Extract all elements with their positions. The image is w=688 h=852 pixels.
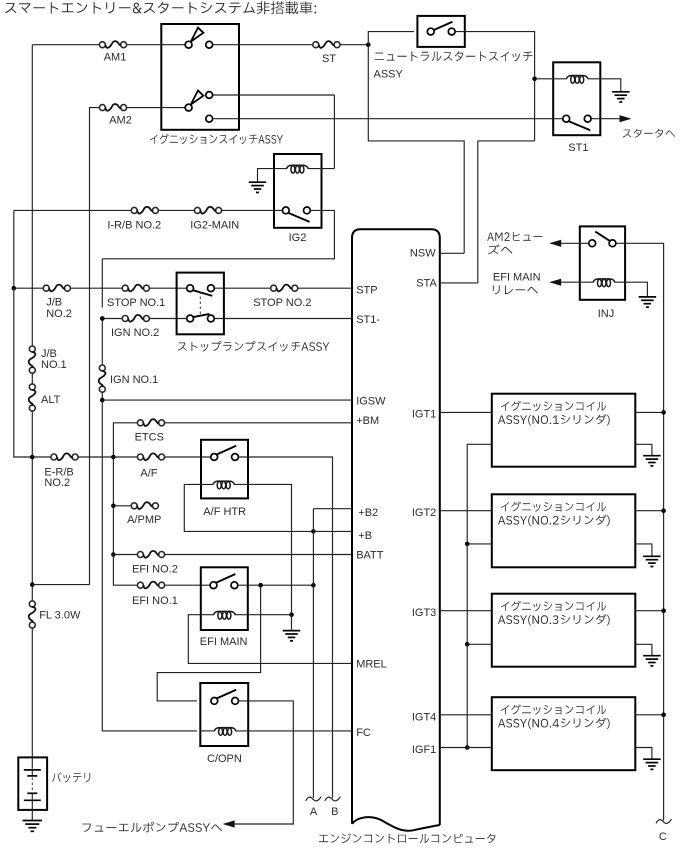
wire IG2 output to IGN riser: [102, 210, 334, 258]
svg-text:ST: ST: [322, 53, 336, 65]
stop lamp switch label: [178, 341, 329, 352]
label to AM2 fuse line1: [487, 232, 542, 241]
junction coil 1 output: [661, 410, 666, 415]
wire AM2 branch horizontal: [32, 584, 89, 586]
ignition switch assy box: [161, 24, 239, 130]
ignition coil assy no.2 label line1: [501, 502, 606, 512]
stop switch top left contact: [187, 285, 194, 292]
fuse IGN NO.1 (vertical): [99, 365, 105, 371]
stop switch top lever: [193, 290, 212, 296]
wire coil 1 ground: [635, 444, 652, 455]
label to starter: [623, 129, 675, 138]
wire bus to FL fuse: [31, 585, 33, 601]
wire C/OPN feed drop: [157, 585, 260, 701]
svg-text:ST1: ST1: [568, 142, 588, 154]
fuse ALT (vertical): [29, 384, 35, 390]
wire bus between J/B NO.1 and ALT: [31, 373, 33, 384]
ignition coil assy no.1 label line1: [501, 401, 606, 411]
arrow to starter: [620, 115, 632, 122]
ignition switch AM2 lever: [191, 91, 204, 105]
wire IG2 coil riser: [333, 95, 335, 169]
arrow to AM2 fuse: [549, 240, 561, 247]
svg-text:FC: FC: [356, 727, 371, 739]
wire +B line to ECU: [313, 530, 352, 532]
neutral switch right contact: [448, 28, 455, 35]
wire C/OPN output to fuel pump: [234, 701, 293, 824]
wire C/OPN coil right to ECU FC: [236, 730, 352, 732]
ignition switch AM1 pivot contact: [185, 41, 192, 48]
wire IGT4 from ECU: [440, 714, 492, 716]
stop lamp switch assy box: [177, 273, 224, 335]
svg-text:IGT4: IGT4: [412, 711, 436, 723]
wire ST fuse to node at x368: [340, 44, 368, 46]
wire EFI NO.1 fuse to EFI MAIN relay: [165, 584, 211, 586]
battery plate 1 stem: [31, 770, 33, 775]
title text: smart entry & start system not installed: [5, 1, 316, 14]
junction IGSW: [100, 398, 105, 403]
wire IGN riser to C/OPN coil: [102, 400, 197, 731]
svg-text:ETCS: ETCS: [135, 432, 164, 444]
wire IGF1 from ECU to coil 4: [440, 747, 492, 749]
svg-text:IGT2: IGT2: [412, 507, 436, 519]
svg-text:STOP NO.2: STOP NO.2: [253, 297, 311, 309]
junction ST line / neutral switch feed: [366, 42, 371, 47]
svg-text:AM2: AM2: [109, 115, 132, 127]
wire coil 3 ground: [635, 644, 652, 655]
relay A/F HTR box: [201, 440, 248, 499]
junction EFI MAIN output / A-line: [311, 583, 316, 588]
ignition switch IG2 output contact: [206, 92, 213, 99]
ground ST1 coil: [612, 91, 630, 93]
ignition switch AM2 pivot contact: [185, 104, 192, 111]
fuse ST: [313, 42, 319, 48]
wire ST1 coil feed: [535, 78, 567, 80]
relay INJ switch left contact: [589, 240, 596, 247]
battery plate 1 long: [24, 769, 41, 771]
fuse E-R/B NO.2: [51, 454, 57, 460]
svg-text:IG2-MAIN: IG2-MAIN: [190, 220, 239, 232]
junction EFI MAIN output / C-OPN feed: [258, 583, 263, 588]
relay ST1 switch right contact: [584, 115, 591, 122]
relay C/OPN switch right contact: [232, 698, 239, 705]
svg-text:INJ: INJ: [598, 308, 615, 320]
wire STOP NO.2 fuse to ECU STP: [298, 287, 352, 289]
ground INJ coil: [639, 296, 657, 298]
wire IGN riser top: [101, 259, 103, 308]
wire STOP NO.1 to stop switch: [149, 287, 186, 289]
ignition coil assy no.3 box: [492, 594, 636, 667]
svg-text:NSW: NSW: [410, 247, 436, 259]
relay IG2 switch lever: [288, 213, 309, 222]
ignition switch ST2 output contact: [206, 115, 213, 122]
wire bus to AM2 branch: [31, 457, 33, 585]
battery plate 2 stem: [31, 793, 33, 799]
wire AM1 feed from battery bus: [32, 44, 99, 46]
wire fuse bus A/PMP to EFI NO.2: [112, 506, 114, 555]
svg-text:+BM: +BM: [356, 415, 379, 427]
wire EFI NO.2 fuse to ECU BATT: [165, 554, 352, 556]
wire IG2 coil to ground: [258, 169, 288, 182]
ignition coil assy no.4 label line2: [498, 718, 610, 729]
svg-text:STP: STP: [356, 285, 377, 297]
wire ST2 line: contact to ST1 relay: [213, 118, 563, 120]
ignition coil assy no.2 box: [492, 494, 636, 567]
battery dashes: [31, 778, 33, 792]
stop switch bottom lever: [193, 314, 209, 317]
wire INJ switch output to right bus: [616, 243, 664, 820]
neutral start switch label line1: [375, 51, 533, 61]
wire INJ coil right to ground: [615, 282, 648, 296]
wire AM2 branch riser: [90, 108, 100, 585]
wire IGF chain coil2 link: [467, 543, 492, 545]
wire fuse bus A/F to A/PMP: [112, 457, 114, 506]
ignition coil assy no.4 label line1: [501, 704, 606, 714]
wire IGN riser to fuse: [101, 319, 103, 365]
svg-text:IG2: IG2: [289, 232, 307, 244]
fuse A/PMP: [131, 503, 137, 509]
battery plate 2 short: [27, 792, 37, 794]
svg-text:A/F: A/F: [140, 467, 157, 479]
wire IG2-MAIN fuse to relay: [222, 209, 283, 211]
wire ST1 coil to ground: [588, 79, 621, 92]
relay A/F HTR switch left contact: [211, 454, 218, 461]
neutral start switch assy box: [417, 16, 464, 47]
ignition switch assy label: [150, 134, 283, 144]
fuse STOP NO.2: [271, 285, 277, 291]
wire fuse bus EFI NO.2 to EFI NO.1: [113, 555, 137, 586]
svg-text:ALT: ALT: [41, 394, 61, 406]
svg-text:IGN NO.2: IGN NO.2: [111, 327, 159, 339]
wire IGN fuse to IGSW junction: [101, 392, 103, 400]
battery plate 2 long: [24, 799, 41, 801]
relay EFI MAIN box: [201, 567, 248, 630]
junction coil 3 output: [661, 608, 666, 613]
relay EFI MAIN lever: [216, 574, 235, 583]
svg-text:NO.2: NO.2: [44, 477, 70, 489]
svg-text:C/OPN: C/OPN: [207, 753, 242, 765]
wire to EFI NO.2 fuse: [113, 554, 137, 556]
relay C/OPN box: [200, 683, 248, 746]
wire AM2 fuse to switch pivot: [126, 107, 185, 109]
svg-text:ASSY: ASSY: [374, 69, 404, 81]
svg-text:EFI NO.1: EFI NO.1: [132, 595, 178, 607]
junction A/PMP feed: [111, 504, 116, 509]
wire left riser from IG2-MAIN line: [13, 210, 15, 288]
wire J/B NO.2 line: [14, 287, 44, 289]
svg-text:IGSW: IGSW: [356, 396, 386, 408]
wire STA pin: [440, 282, 478, 284]
coil A/F HTR: [213, 481, 235, 485]
ECU body outline: [352, 229, 440, 831]
wire NSW pin: [440, 252, 464, 254]
svg-text:C: C: [659, 831, 667, 843]
wire battery bus top (AM1 riser): [31, 45, 33, 346]
relay INJ box: [580, 226, 625, 299]
stop switch bottom left contact: [187, 315, 194, 322]
ignition switch AM1 output contact: [206, 41, 213, 48]
junction IGF chain coil 3: [465, 642, 470, 647]
battery cell top wire: [31, 757, 33, 768]
wire to A/F fuse: [113, 456, 137, 458]
wire EFI MAIN output: [238, 584, 314, 586]
ignition coil assy no.2 label line2: [498, 515, 610, 526]
junction EFI MAIN coil ground: [289, 612, 294, 617]
wire STP: stop switch to STOP NO.2 fuse: [214, 287, 270, 289]
ground ignition coil 1: [643, 455, 661, 457]
ignition coil assy no.1 label line2: [498, 414, 610, 425]
wire neutral switch right pin to ST1 coil riser: [455, 32, 534, 141]
wire FL fuse to battery: [31, 628, 33, 757]
svg-text:J/B: J/B: [46, 297, 62, 309]
junction E-R/B feed: [30, 455, 35, 460]
wire A/F HTR coil right to ground: [234, 484, 291, 614]
wire NSW branch down: [368, 45, 464, 254]
wire EFI MAIN coil left to MREL: [188, 615, 352, 664]
svg-text:AM1: AM1: [104, 52, 127, 64]
relay IG2 box: [274, 154, 322, 228]
junction ST1 coil feed: [532, 77, 537, 82]
svg-text:+B2: +B2: [358, 507, 378, 519]
relay C/OPN switch left contact: [211, 698, 218, 705]
junction IGN NO.2 feed: [100, 316, 105, 321]
arrow to fuel pump: [223, 820, 235, 827]
relay INJ lever: [595, 232, 609, 241]
wire IGF chain top hook (coil 1): [467, 444, 492, 544]
junction EFI NO.2 feed: [111, 552, 116, 557]
svg-text:+B: +B: [358, 530, 372, 542]
wire IGF chain coil3 link: [467, 643, 492, 645]
svg-text:NO.2: NO.2: [46, 308, 72, 320]
junction IGF chain / IGF1: [465, 745, 470, 750]
fuse STOP NO.1: [122, 285, 128, 291]
ignition coil assy no.1 box: [492, 394, 636, 467]
wire C/OPN coil left stub: [200, 730, 214, 732]
svg-text:STA: STA: [416, 278, 437, 290]
svg-text:NO.1: NO.1: [41, 359, 67, 371]
wire ground stem: [291, 615, 293, 630]
wire coil 3 output to right bus: [635, 610, 663, 612]
wire ETCS fuse to ECU +BM: [165, 422, 352, 424]
fuse J/B NO.1 (vertical): [29, 346, 35, 352]
svg-text:MREL: MREL: [356, 659, 387, 671]
fuse I-R/B NO.2: [131, 207, 137, 213]
junction A/F feed: [111, 455, 116, 460]
relay A/F HTR switch right contact: [232, 454, 239, 461]
battery box: [18, 757, 47, 810]
svg-text:A/F HTR: A/F HTR: [203, 506, 246, 518]
fuse A/F: [137, 454, 143, 460]
break B squiggle: [325, 797, 341, 801]
wire IGSW line to ECU: [102, 399, 352, 401]
relay C/OPN lever: [217, 690, 236, 699]
svg-text:EFI MAIN: EFI MAIN: [493, 272, 541, 284]
wire A-line riser: [312, 509, 314, 798]
coil ST1: [566, 76, 588, 80]
wire bus ALT to E-R/B junction: [31, 411, 33, 457]
wire between fuses: [158, 209, 194, 211]
relay INJ switch right contact: [609, 240, 616, 247]
arrow to EFI MAIN relay: [549, 279, 561, 286]
svg-text:BATT: BATT: [356, 550, 384, 562]
wire IGF chain 3-4: [466, 644, 468, 747]
neutral switch lever: [434, 22, 453, 30]
wire to E-R/B fuse: [32, 456, 51, 458]
relay ST1 switch left contact: [563, 115, 570, 122]
wire coil 2 output to right bus: [635, 510, 663, 512]
wire IG2 coil from riser: [308, 168, 335, 170]
label fuel pump assy: [82, 822, 222, 833]
relay EFI MAIN switch right contact: [231, 582, 238, 589]
wire coil 1 output to right bus: [635, 411, 663, 413]
wire node to neutral switch left pin: [368, 32, 414, 45]
battery label: [52, 772, 90, 782]
wire to A/PMP fuse: [113, 505, 131, 507]
svg-text:I-R/B NO.2: I-R/B NO.2: [107, 220, 161, 232]
wire ST line: AM1 contact to ST fuse: [213, 44, 313, 46]
neutral switch left contact: [427, 28, 434, 35]
coil C/OPN: [214, 728, 236, 732]
relay IG2 switch left contact: [282, 207, 289, 214]
stop switch bottom right contact: [208, 315, 215, 322]
svg-text:IGF1: IGF1: [412, 744, 436, 756]
svg-text:ST1-: ST1-: [356, 314, 380, 326]
wire ETCS branch: [113, 423, 137, 457]
wire INJ switch to arrow: [561, 242, 589, 244]
relay EFI MAIN switch left contact: [210, 582, 217, 589]
junction coil 4 output: [661, 713, 666, 718]
svg-text:EFI NO.2: EFI NO.2: [132, 564, 178, 576]
wire coil 4 ground: [635, 748, 652, 759]
wire IGT1 from ECU: [440, 411, 492, 413]
wire ST1-: stop switch to ECU: [214, 318, 352, 320]
svg-text:A: A: [310, 806, 318, 818]
wire IGT2 from ECU: [440, 510, 492, 512]
relay ST1 switch lever: [569, 121, 591, 130]
ignition switch AM1 lever: [191, 28, 204, 42]
wire A/F fuse to relay: [165, 456, 211, 458]
ignition coil assy no.3 label line1: [501, 601, 606, 611]
junction J/B NO.2 feed: [12, 286, 17, 291]
wire IGF chain 2-3: [466, 544, 468, 644]
coil IG2: [286, 165, 308, 169]
label to EFI MAIN relay line2: [493, 285, 538, 294]
coil EFI MAIN: [213, 611, 235, 615]
junction IGN NO.1 top: [100, 316, 105, 321]
fuse IGN NO.2: [122, 316, 128, 322]
svg-text:IGT1: IGT1: [412, 409, 436, 421]
fuse IG2-MAIN: [194, 207, 200, 213]
wire ST1 output to starter arrow: [591, 118, 620, 120]
wire IGN NO.2 fuse to stop switch: [149, 318, 186, 320]
junction IGF chain coil 2: [465, 542, 470, 547]
svg-text:IGT3: IGT3: [412, 607, 436, 619]
wire STA riser: [477, 141, 479, 283]
wire AM1 fuse to switch pivot: [126, 44, 185, 46]
fuse FL 3.0W (vertical): [29, 601, 35, 607]
wire E-R/B fuse to A/F junction: [78, 456, 113, 458]
ground ignition coil 2: [643, 555, 661, 557]
wire A-line +B2 hook: [313, 508, 352, 510]
fuse J/B NO.2: [43, 285, 49, 291]
fuse AM2: [99, 105, 105, 111]
stop switch link dashed: [199, 292, 201, 317]
relay ST1 box: [553, 62, 600, 135]
ground battery: [23, 820, 43, 822]
wire EFI MAIN coil right to ground: [235, 614, 292, 616]
break A squiggle: [306, 797, 322, 801]
svg-text:EFI MAIN: EFI MAIN: [200, 636, 248, 648]
junction coil 2 output: [661, 508, 666, 513]
ECU label: [319, 833, 495, 843]
label to AM2 fuse line2: [488, 244, 512, 254]
wire IG2-MAIN line from left riser: [14, 209, 132, 211]
wire J/B fuse to STOP fuse: [70, 287, 122, 289]
wire A/F HTR output to B-line: [238, 457, 332, 798]
wire E-R/B NO.2 line from left riser: [14, 288, 33, 457]
wire IGT3 from ECU: [440, 610, 492, 612]
svg-text:B: B: [331, 806, 338, 818]
ground IG2 coil: [249, 181, 267, 183]
relay IG2 switch right contact: [304, 207, 311, 214]
wire INJ coil left to arrow: [561, 281, 594, 283]
wire IG2 feed: contact to IG2 relay coil riser: [213, 94, 335, 96]
junction +B line / A-line: [311, 529, 316, 534]
battery plate 1 short: [27, 775, 37, 777]
fuse EFI NO.1: [137, 582, 143, 588]
fuse ETCS: [137, 420, 143, 426]
fuse AM1: [99, 42, 105, 48]
ground A/F HTR + EFI MAIN coils: [283, 630, 301, 632]
fuse EFI NO.2: [137, 552, 143, 558]
wire IGN NO.2 line: [102, 318, 122, 320]
battery bottom wire: [31, 800, 33, 820]
svg-text:STOP NO.1: STOP NO.1: [107, 297, 165, 309]
wire A/F HTR coil left to +B line: [184, 484, 313, 531]
svg-text:A/PMP: A/PMP: [127, 514, 161, 526]
ignition coil assy no.3 label line2: [498, 614, 610, 625]
junction AM2 branch: [30, 582, 35, 587]
ground ignition coil 3: [643, 655, 661, 657]
relay A/F HTR lever: [217, 446, 236, 455]
break C squiggle: [656, 819, 672, 823]
wire coil 2 ground: [635, 544, 652, 556]
wire coil 4 output to right bus: [635, 714, 663, 716]
svg-text:IGN NO.1: IGN NO.1: [110, 374, 158, 386]
wire STA branch down: [478, 140, 535, 142]
ground ignition coil 4: [643, 758, 661, 760]
stop switch top right contact: [208, 285, 215, 292]
ignition coil assy no.4 box: [492, 697, 636, 770]
coil INJ: [593, 279, 615, 283]
svg-text:FL 3.0W: FL 3.0W: [39, 610, 81, 622]
